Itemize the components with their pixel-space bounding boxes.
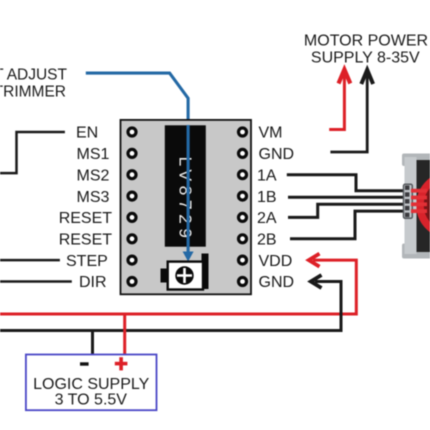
trimmer body	[168, 262, 203, 290]
motor connector	[404, 184, 413, 218]
driver module board	[121, 120, 252, 294]
motor red stripes	[411, 189, 427, 213]
svg-text:SUPPLY 8-35V: SUPPLY 8-35V	[311, 50, 420, 67]
wire 1A to motor	[287, 175, 405, 191]
svg-text:EN: EN	[76, 125, 98, 142]
arrowhead red left into VDD	[309, 254, 320, 267]
wire 2B to motor	[290, 211, 405, 239]
svg-text:VDD: VDD	[259, 253, 293, 270]
motor red ring	[420, 175, 430, 235]
svg-text:STEP: STEP	[66, 253, 108, 270]
svg-text:MS2: MS2	[77, 167, 110, 184]
left pin labels	[59, 125, 113, 292]
chip LV8729	[165, 125, 206, 246]
svg-text:GND: GND	[259, 146, 295, 163]
svg-text:RESET: RESET	[59, 232, 113, 249]
wire VDD supply (red) with bus	[0, 260, 356, 314]
wire blue trimmer-adjust	[86, 73, 188, 253]
svg-text:GND: GND	[259, 274, 295, 291]
svg-text:MOTOR POWER: MOTOR POWER	[304, 33, 428, 50]
motor top cap	[402, 154, 430, 167]
svg-text:2A: 2A	[257, 210, 277, 227]
trimmer screw	[175, 266, 193, 284]
svg-text:2B: 2B	[257, 232, 277, 249]
wire STEP	[0, 259, 60, 262]
stepper motor	[402, 154, 430, 259]
svg-text:DIR: DIR	[79, 274, 107, 291]
logic supply box	[26, 355, 157, 411]
trimmer left tab	[161, 269, 169, 283]
motor body	[405, 157, 417, 254]
pin holes left column	[128, 128, 136, 286]
wire blue overlay on chip	[187, 125, 190, 253]
motor face dark	[417, 160, 430, 252]
arrowhead blue into trimmer	[183, 252, 194, 262]
wire black bus to minus	[91, 331, 94, 355]
right pin labels	[257, 125, 294, 292]
connector pins	[405, 186, 409, 218]
label MOTOR POWER SUPPLY 8-35V	[304, 33, 428, 67]
wire GND supply (black) with bus	[0, 282, 341, 331]
wire 1B to motor	[288, 196, 405, 199]
wire GND to motor power (black)	[330, 72, 367, 152]
wire red bus to plus	[123, 314, 126, 355]
motor bottom cap	[402, 244, 430, 259]
svg-text:LV8729: LV8729	[176, 157, 196, 243]
wire VM to motor power (red)	[329, 72, 344, 130]
arrowhead black up	[361, 70, 373, 84]
terminal minus	[80, 362, 89, 365]
svg-text:1A: 1A	[257, 167, 277, 184]
wire 2A to motor	[288, 204, 405, 217]
trimmer potentiometer	[161, 254, 209, 290]
pin holes right column	[239, 128, 247, 286]
arrowhead red up	[339, 70, 351, 84]
label CURRENT ADJUST TRIMMER	[0, 67, 68, 101]
svg-text:LOGIC SUPPLY: LOGIC SUPPLY	[33, 376, 150, 393]
svg-text:1B: 1B	[257, 189, 277, 206]
terminal plus	[115, 357, 128, 370]
svg-text:3 TO 5.5V: 3 TO 5.5V	[55, 392, 128, 409]
svg-text:VM: VM	[259, 125, 283, 142]
arrowhead black left into GND	[311, 275, 322, 288]
svg-text:MS3: MS3	[77, 189, 110, 206]
trimmer right tab	[202, 254, 209, 290]
svg-text:CURRENT ADJUST: CURRENT ADJUST	[0, 67, 68, 84]
wire EN	[0, 132, 65, 173]
svg-text:MS1: MS1	[77, 146, 110, 163]
svg-text:RESET: RESET	[59, 210, 113, 227]
svg-text:TRIMMER: TRIMMER	[0, 84, 66, 101]
wire DIR	[0, 280, 72, 283]
